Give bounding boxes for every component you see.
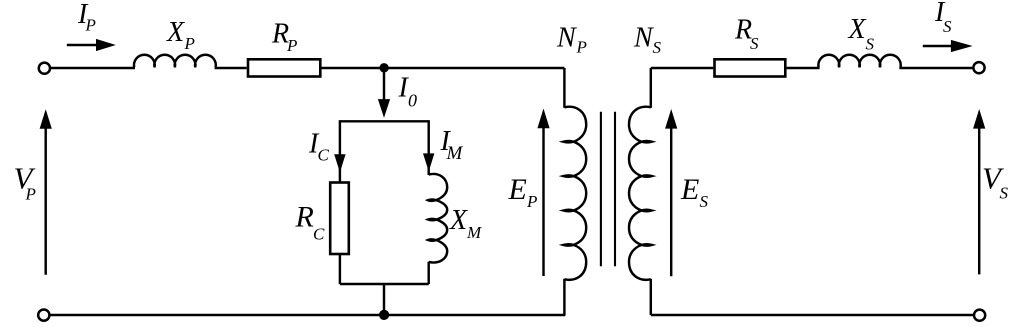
inductor X_M bbox=[428, 174, 447, 263]
svg-text:S: S bbox=[750, 34, 759, 53]
winding N_S secondary coil bbox=[629, 107, 652, 280]
current arrow I_C bbox=[334, 154, 345, 172]
svg-text:S: S bbox=[1000, 184, 1009, 203]
inductor X_S bbox=[818, 55, 900, 68]
svg-text:E: E bbox=[508, 173, 527, 206]
svg-text:X: X bbox=[848, 14, 867, 45]
wire shunt right vertical (I_M branch) bbox=[427, 120, 429, 175]
svg-text:M: M bbox=[466, 223, 482, 242]
svg-text:C: C bbox=[318, 146, 330, 165]
wire shunt stub to bottom rail bbox=[383, 284, 385, 315]
svg-text:0: 0 bbox=[408, 91, 417, 111]
voltage arrow E_P bbox=[537, 109, 549, 277]
wire R_S to X_S bbox=[787, 67, 820, 69]
resistor R_P bbox=[248, 59, 320, 76]
svg-text:P: P bbox=[526, 192, 537, 211]
svg-text:R: R bbox=[295, 201, 314, 234]
svg-text:P: P bbox=[25, 184, 36, 203]
svg-text:S: S bbox=[943, 17, 952, 36]
svg-text:P: P bbox=[85, 16, 96, 35]
wire shunt bottom bar bbox=[340, 283, 429, 285]
wire primary winding bottom lead bbox=[563, 279, 565, 315]
voltage arrow V_S bbox=[973, 109, 985, 274]
node junction dot top bbox=[379, 63, 388, 72]
voltage arrow V_P bbox=[40, 109, 52, 275]
svg-text:X: X bbox=[166, 17, 185, 48]
wire X_M to shunt bottom bbox=[427, 262, 429, 284]
wire X_P to R_P bbox=[215, 67, 247, 69]
node junction dot bottom bbox=[379, 310, 389, 320]
svg-text:S: S bbox=[866, 35, 875, 54]
terminal top-left bbox=[39, 63, 50, 74]
wire bottom-right rail bbox=[651, 314, 973, 316]
current arrow I_M bbox=[423, 153, 434, 171]
current arrow I_P bbox=[67, 39, 116, 51]
current arrow I_S bbox=[923, 40, 973, 52]
svg-text:C: C bbox=[313, 225, 325, 244]
svg-text:M: M bbox=[446, 143, 464, 164]
svg-text:P: P bbox=[286, 36, 297, 55]
wire secondary winding top lead bbox=[650, 68, 652, 108]
wire shunt top bar bbox=[340, 120, 429, 122]
inductor X_P bbox=[134, 55, 216, 68]
wire secondary top to R_S bbox=[651, 67, 713, 69]
svg-text:P: P bbox=[576, 38, 587, 57]
wire R_P to primary winding bbox=[322, 67, 565, 69]
wire R_C to shunt bottom bbox=[339, 254, 341, 285]
svg-text:S: S bbox=[700, 192, 709, 211]
wire bottom-left rail bbox=[50, 314, 565, 316]
resistor R_C bbox=[330, 183, 349, 255]
wire top-left: terminal to X_P bbox=[51, 67, 135, 69]
svg-text:N: N bbox=[556, 23, 577, 54]
svg-text:S: S bbox=[653, 38, 662, 57]
voltage arrow E_S bbox=[665, 109, 677, 276]
wire primary winding top lead bbox=[563, 68, 565, 108]
wire secondary winding bottom lead bbox=[650, 279, 652, 315]
core line right bbox=[614, 112, 616, 267]
resistor R_S bbox=[715, 59, 786, 76]
svg-text:N: N bbox=[633, 23, 654, 54]
svg-text:E: E bbox=[680, 173, 699, 206]
current arrow I_0 bbox=[378, 68, 390, 118]
svg-text:P: P bbox=[184, 34, 195, 53]
wire X_S to terminal bbox=[899, 67, 972, 69]
winding N_P primary coil bbox=[563, 107, 586, 280]
terminal top-right bbox=[973, 62, 984, 73]
core line left bbox=[600, 112, 602, 267]
wire shunt left vertical (I_C branch) bbox=[339, 120, 341, 183]
svg-text:X: X bbox=[449, 205, 468, 236]
terminal bottom-left bbox=[38, 310, 49, 321]
terminal bottom-right bbox=[974, 310, 985, 321]
